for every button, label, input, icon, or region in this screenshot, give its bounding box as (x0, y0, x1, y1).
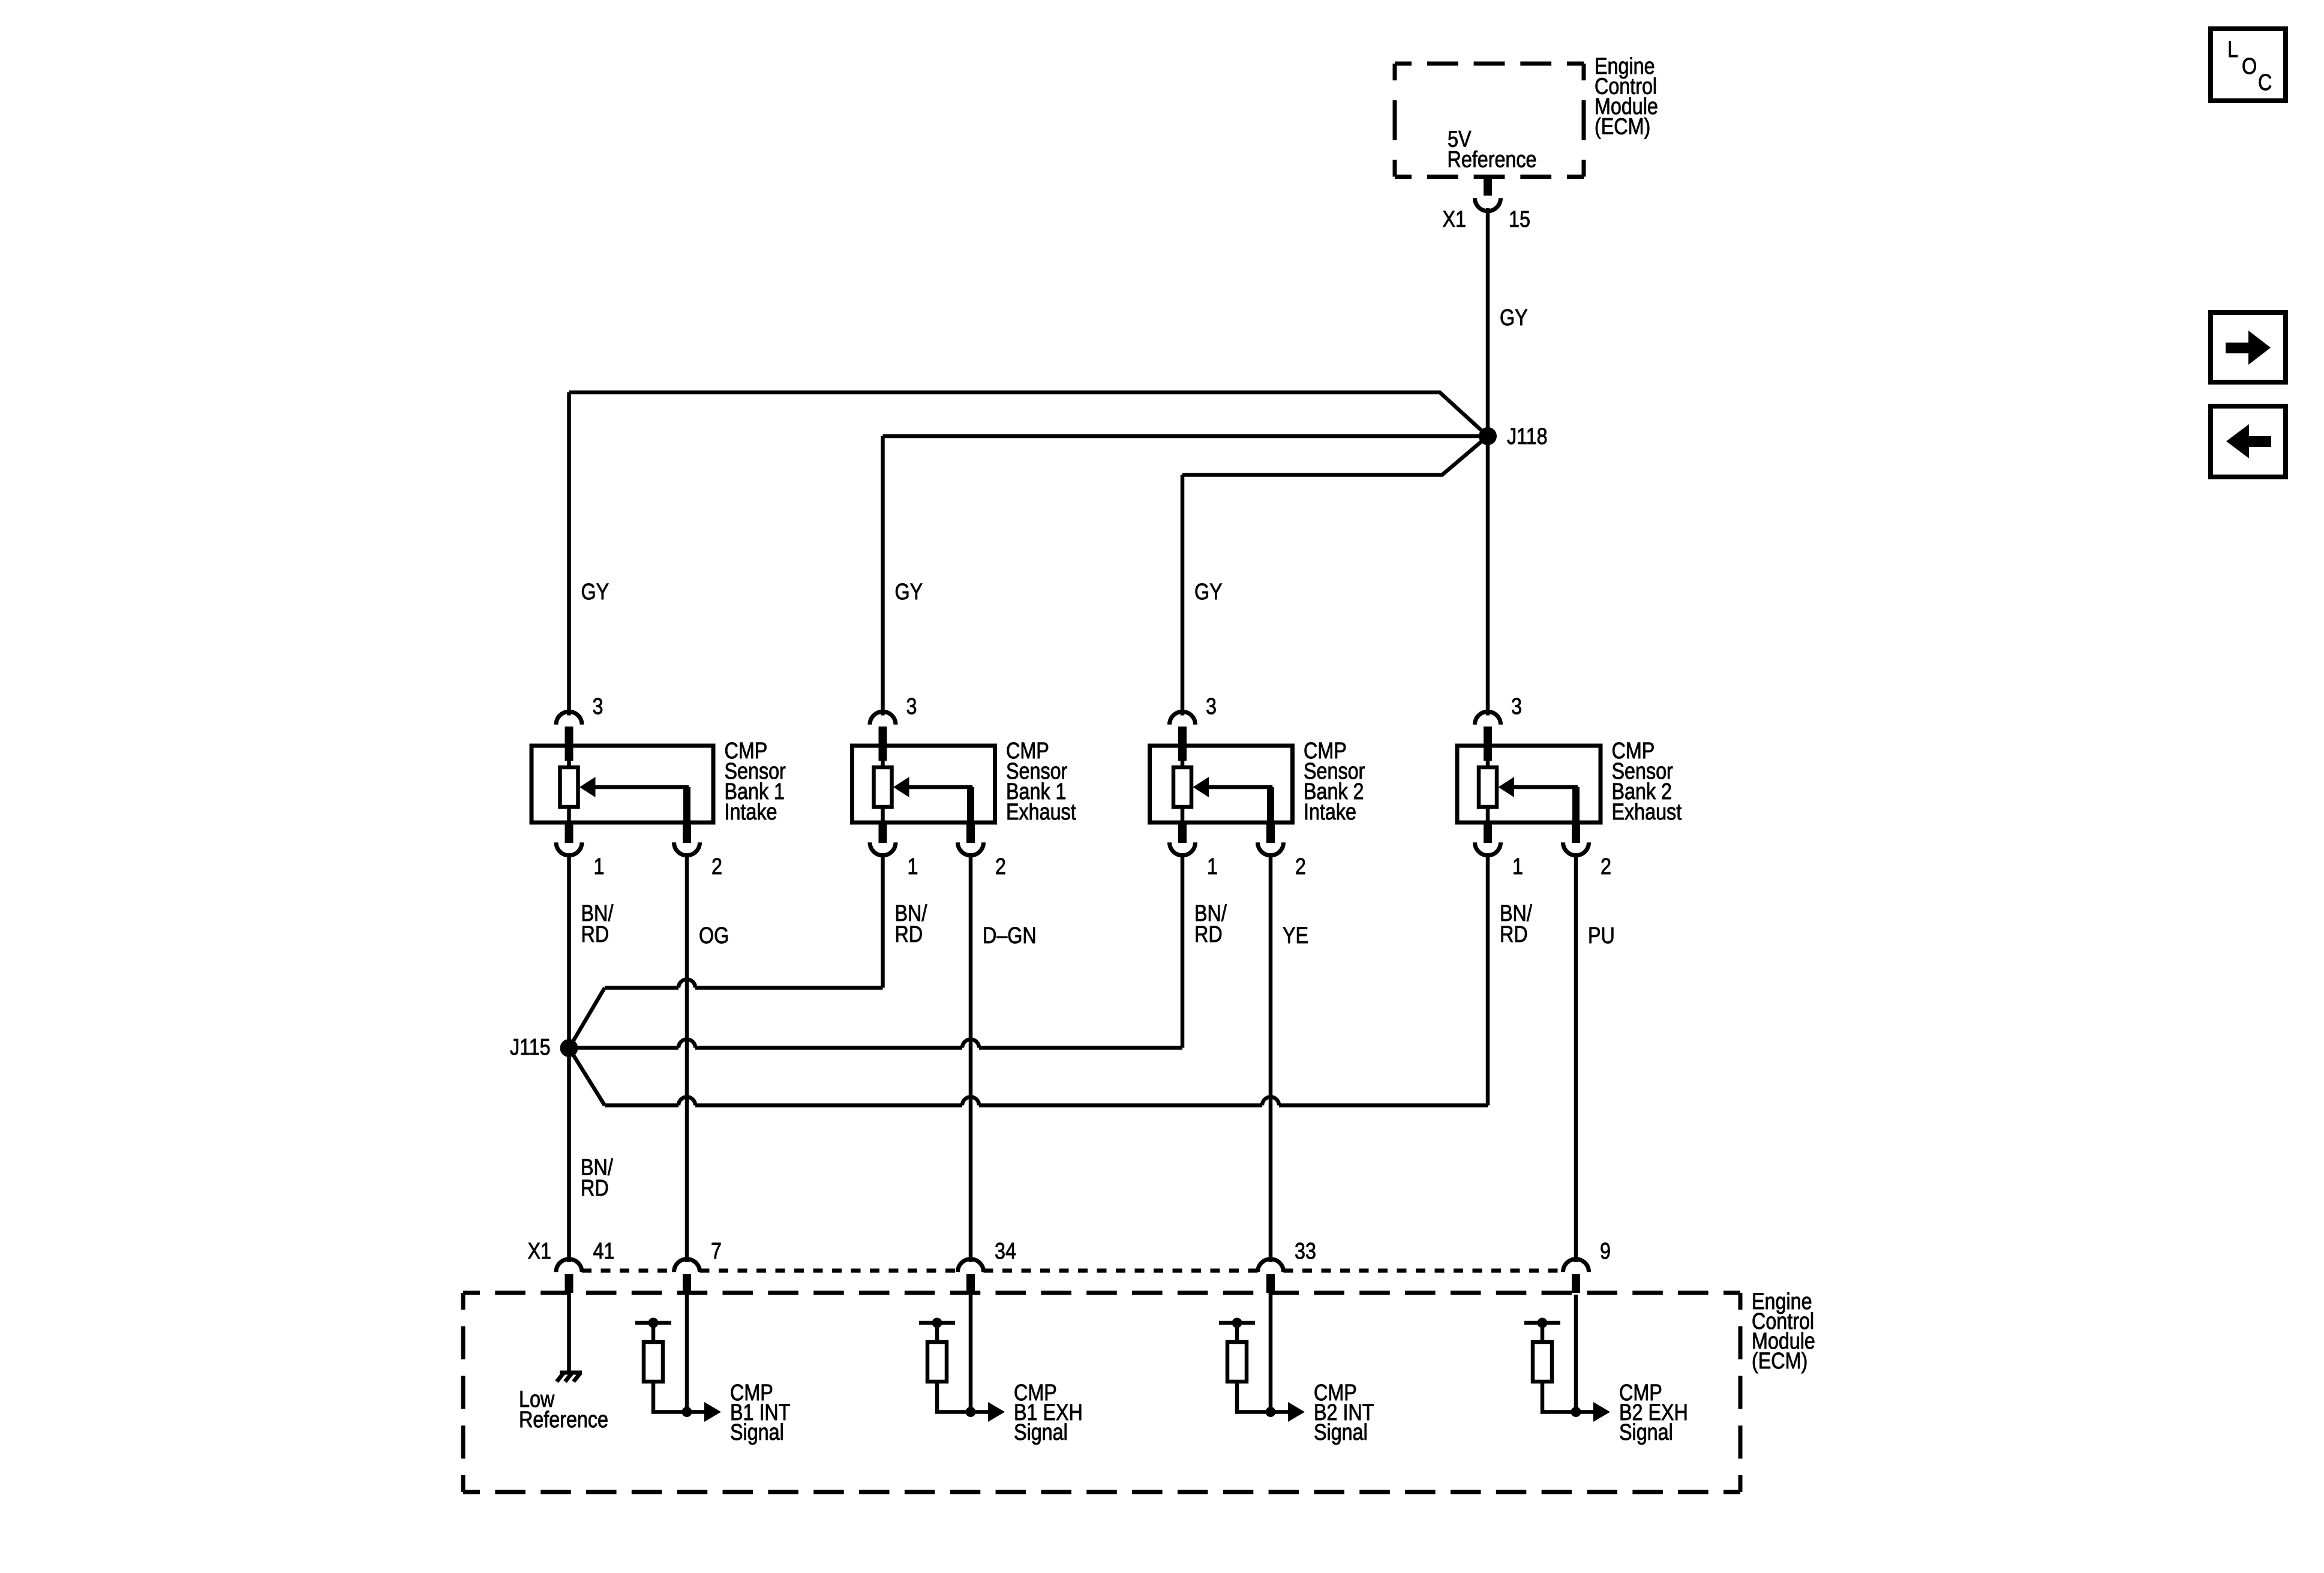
label Engine Control Module (ECM) top (1595, 54, 1658, 140)
wire B2 INT signal inside ECM (pin) (1269, 1295, 1273, 1412)
svg-text:RD: RD (1500, 922, 1528, 947)
wire BN/RD sensor B1 exhaust pin 1 down to J115 branch (881, 853, 885, 988)
wire resistor to B1 EXH signal node (937, 1382, 971, 1412)
signal arrow B2 INT (1271, 1402, 1305, 1422)
wire BN/RD from J115 down to ECM X1-41 (567, 1048, 571, 1262)
svg-text:2: 2 (995, 854, 1006, 879)
svg-text:O: O (2242, 54, 2257, 79)
pin 2 stub of CMP sensor Bank 2 Exhaust (1572, 822, 1580, 843)
svg-text:Reference: Reference (519, 1407, 608, 1433)
Engine Control Module (ECM) top box (dashed border top) (1395, 62, 1584, 66)
svg-text:3: 3 (1206, 694, 1217, 719)
junction splice J115 (560, 1039, 578, 1057)
pin 3 stub into CMP sensor Bank 2 Intake (1178, 727, 1187, 761)
pin 3 stub into CMP sensor Bank 1 Intake (565, 727, 574, 761)
pin 2 stub of CMP sensor Bank 1 Intake (683, 822, 691, 843)
junction dot B1 INT signal node (682, 1407, 692, 1417)
Engine Control Module (ECM) top box (dashed border bottom) (1395, 175, 1584, 179)
CMP sensor Bank 1 Exhaust box (852, 746, 995, 822)
sensing element (resistor) of CMP sensor Bank 2 Exhaust (1486, 758, 1490, 822)
Engine Control Module (ECM) bottom box (dashed border left) (461, 1293, 466, 1492)
svg-text:RD: RD (895, 922, 923, 947)
pin 41 stub into ECM (565, 1274, 574, 1293)
connector pin 1 of CMP sensor Bank 1 Exhaust (870, 842, 896, 855)
connector pin 2 of CMP sensor Bank 2 Exhaust (1563, 842, 1589, 855)
sensing element (resistor) of CMP sensor Bank 1 Exhaust (881, 758, 885, 822)
wire BN/RD branch J115 to sensor B2 intake (hops over OG and D-GN) (578, 1040, 1182, 1048)
label CMP sensor Bank 1 Intake (725, 739, 786, 825)
wire resistor to B2 INT signal node (1237, 1382, 1271, 1412)
connector pin 3 of CMP sensor Bank 1 Exhaust (870, 712, 896, 725)
pin 7 stub into ECM (683, 1274, 691, 1293)
ECM X1 connector face (dotted line) (582, 1269, 1563, 1273)
wire label BN/RD (sensor 1 pin 1) (581, 901, 614, 947)
svg-text:Reference: Reference (1448, 147, 1537, 172)
wire GY branch drop to sensor B1 intake pin 3 (567, 392, 571, 716)
svg-text:34: 34 (995, 1239, 1016, 1264)
svg-text:X1: X1 (528, 1239, 551, 1264)
wire BN/RD sensor B2 intake pin 1 down to J115 branch (1181, 853, 1185, 1048)
svg-text:33: 33 (1295, 1239, 1316, 1264)
Engine Control Module (ECM) bottom box (dashed border bottom) (463, 1490, 1740, 1494)
connector pin 1 of CMP sensor Bank 2 Exhaust (1475, 842, 1501, 855)
label CMP sensor Bank 2 Intake (1304, 739, 1365, 825)
pull-up rail for B2 EXH signal (1524, 1318, 1560, 1343)
svg-text:2: 2 (1601, 854, 1611, 879)
connector pin 1 of CMP sensor Bank 2 Intake (1169, 842, 1195, 855)
pull-up rail for B2 INT signal (1219, 1318, 1255, 1343)
internal arrow to element of CMP sensor Bank 1 Intake (580, 777, 690, 822)
signal arrow B1 INT (687, 1402, 721, 1422)
svg-text:YE: YE (1283, 923, 1308, 948)
pin 1 stub of CMP sensor Bank 1 Exhaust (879, 822, 887, 843)
pin 1 stub of CMP sensor Bank 1 Intake (565, 822, 574, 843)
label CMP B2 EXH Signal (1619, 1380, 1688, 1445)
svg-text:Exhaust: Exhaust (1006, 800, 1076, 825)
wire B1 EXH signal inside ECM (pin) (969, 1295, 973, 1412)
signal arrow B2 EXH (1576, 1402, 1610, 1422)
internal arrow to element of CMP sensor Bank 2 Intake (1193, 777, 1275, 822)
connector pin 3 of CMP sensor Bank 2 Exhaust (1475, 712, 1501, 725)
wire label BN/RD (low reference) (581, 1155, 613, 1201)
resistor (pull-up) for B2 INT signal (1227, 1342, 1247, 1382)
resistor (pull-up) for B1 INT signal (644, 1342, 663, 1382)
pin 34 stub into ECM (966, 1274, 975, 1293)
svg-text:2: 2 (1295, 854, 1306, 879)
svg-text:(ECM): (ECM) (1595, 114, 1650, 139)
junction dot B2 EXH signal node (1571, 1407, 1581, 1417)
pin 3 stub into CMP sensor Bank 2 Exhaust (1484, 727, 1492, 761)
pin 3 stub into CMP sensor Bank 1 Exhaust (879, 727, 887, 761)
wire BN/RD sensor B1 intake pin 1 down to splice J115 (567, 853, 571, 1048)
wire GY branch drop to sensor B1 exhaust pin 3 (881, 436, 885, 716)
pull-up rail for B1 EXH signal (919, 1318, 955, 1343)
connector pin 33 (ECM X1) (1258, 1259, 1284, 1272)
svg-text:3: 3 (906, 694, 917, 719)
wire resistor to B2 EXH signal node (1542, 1382, 1576, 1412)
pull-up rail for B1 INT signal (635, 1318, 671, 1343)
svg-text:Signal: Signal (730, 1420, 784, 1445)
svg-text:J118: J118 (1507, 424, 1548, 449)
wire label BN/RD (sensor 3 pin 1) (1194, 901, 1227, 947)
wire resistor to B1 INT signal node (653, 1382, 687, 1412)
LOC legend box (2211, 29, 2286, 101)
wire GY branch J118 to sensor B1 exhaust (883, 434, 1479, 439)
connector pin 3 of CMP sensor Bank 1 Intake (556, 712, 582, 725)
svg-text:Intake: Intake (725, 800, 777, 825)
CMP sensor Bank 2 Intake box (1150, 746, 1293, 822)
pin 1 stub of CMP sensor Bank 2 Exhaust (1484, 822, 1492, 843)
resistor (pull-up) for B1 EXH signal (927, 1342, 947, 1382)
connector pin 34 (ECM X1) (958, 1259, 984, 1272)
svg-text:1: 1 (594, 854, 605, 879)
CMP sensor Bank 2 Exhaust box (1457, 746, 1601, 822)
svg-text:GY: GY (1500, 305, 1528, 331)
Engine Control Module (ECM) top box (dashed border left) (1393, 64, 1397, 177)
pin 33 stub into ECM (1266, 1274, 1275, 1293)
svg-text:J115: J115 (510, 1035, 551, 1060)
Engine Control Module (ECM) bottom box (dashed border right) (1739, 1293, 1743, 1492)
sensing element (resistor) of CMP sensor Bank 1 Intake (567, 758, 571, 822)
svg-text:OG: OG (699, 923, 729, 948)
internal arrow to element of CMP sensor Bank 1 Exhaust (893, 777, 974, 822)
label CMP B2 INT Signal (1314, 1380, 1374, 1445)
svg-text:X1: X1 (1443, 207, 1466, 232)
wire B1 INT signal inside ECM (pin) (685, 1295, 689, 1412)
wire label BN/RD (sensor 4 pin 1) (1500, 901, 1532, 947)
connector pin 2 of CMP sensor Bank 1 Exhaust (958, 842, 984, 855)
svg-text:RD: RD (1194, 922, 1223, 947)
wire GY branch J118 to sensor B2 intake (horizontal+diagonal) (1182, 436, 1488, 475)
svg-text:Signal: Signal (1314, 1420, 1368, 1445)
label Low Reference (519, 1387, 608, 1433)
pin 1 stub of CMP sensor Bank 2 Intake (1178, 822, 1187, 843)
svg-text:7: 7 (711, 1239, 722, 1264)
connector X1-15 (female half-circle) (1475, 198, 1501, 211)
signal arrow B1 EXH (971, 1402, 1005, 1422)
svg-text:Intake: Intake (1304, 800, 1356, 825)
wire D-GN sensor pin 2 down to ECM (B1 EXH signal) (969, 853, 973, 1262)
svg-text:C: C (2258, 70, 2272, 95)
connector pin 9 (ECM X1) (1563, 1259, 1589, 1272)
connector pin 2 of CMP sensor Bank 2 Intake (1258, 842, 1284, 855)
wire BN/RD branch J115 to sensor B2 exhaust (diagonal+horizontal, hops over OG, D-GN, YE) (569, 1048, 605, 1106)
svg-text:3: 3 (593, 694, 603, 719)
wire PU sensor pin 2 down to ECM (B2 EXH signal) (1574, 853, 1578, 1262)
wire BN/RD sensor B2 exhaust pin 1 down to J115 branch (1486, 853, 1490, 1106)
wire OG sensor pin 2 down to ECM (B1 INT signal) (685, 853, 689, 1262)
wire low reference inside ECM (pin 41) (567, 1293, 571, 1371)
label CMP sensor Bank 1 Exhaust (1006, 739, 1076, 825)
resistor (pull-up) for B2 EXH signal (1533, 1342, 1552, 1382)
svg-text:(ECM): (ECM) (1752, 1349, 1807, 1374)
svg-text:2: 2 (711, 854, 722, 879)
connector pin 3 of CMP sensor Bank 2 Intake (1169, 712, 1195, 725)
label CMP B1 INT Signal (730, 1380, 790, 1445)
svg-text:1: 1 (1207, 854, 1218, 879)
chassis ground symbol (low reference) (557, 1373, 582, 1382)
wire BN/RD branch J115 to sensor B1 exhaust (diagonal+horizontal, hops over OG) (569, 988, 605, 1049)
junction dot B2 INT signal node (1266, 1407, 1276, 1417)
Engine Control Module (ECM) bottom box (dashed border top) (463, 1291, 1740, 1295)
svg-text:15: 15 (1509, 207, 1530, 232)
svg-text:GY: GY (1194, 580, 1223, 605)
pin stub X1-15 (male) (1484, 177, 1492, 196)
svg-text:PU: PU (1588, 923, 1615, 948)
svg-text:3: 3 (1511, 694, 1522, 719)
wire YE sensor pin 2 down to ECM (B2 INT signal) (1269, 853, 1273, 1262)
wire GY branch J118 to sensor B1 intake (horizontal+diagonal) (569, 392, 1488, 436)
wire B2 EXH signal inside ECM (pin) (1574, 1295, 1578, 1412)
sensing element (resistor) of CMP sensor Bank 2 Intake (1181, 758, 1185, 822)
forward navigation arrow button (2211, 313, 2286, 382)
svg-text:9: 9 (1600, 1239, 1611, 1264)
svg-text:L: L (2227, 37, 2238, 62)
svg-text:Exhaust: Exhaust (1612, 800, 1682, 825)
svg-text:RD: RD (581, 1176, 609, 1201)
pin 2 stub of CMP sensor Bank 1 Exhaust (966, 822, 975, 843)
back navigation arrow button (2211, 406, 2286, 477)
junction splice J118 (1479, 427, 1497, 445)
svg-text:Signal: Signal (1014, 1420, 1068, 1445)
label CMP B1 EXH Signal (1014, 1380, 1083, 1445)
svg-text:41: 41 (593, 1239, 615, 1264)
Engine Control Module (ECM) top box (dashed border right) (1582, 64, 1586, 177)
internal arrow to element of CMP sensor Bank 2 Exhaust (1499, 777, 1580, 822)
svg-text:RD: RD (581, 922, 609, 947)
svg-text:GY: GY (895, 580, 923, 605)
wire GY from ECM X1-15 down to CMP sensor B2 exhaust pin 3 (1486, 208, 1490, 716)
pin 9 stub into ECM (1572, 1274, 1580, 1293)
pin 2 stub of CMP sensor Bank 2 Intake (1266, 822, 1275, 843)
svg-text:1: 1 (908, 854, 918, 879)
CMP sensor Bank 1 Intake box (532, 746, 713, 822)
connector pin 1 of CMP sensor Bank 1 Intake (556, 842, 582, 855)
label 5V Reference (1448, 127, 1537, 172)
svg-text:GY: GY (581, 580, 609, 605)
wire GY branch drop to sensor B2 intake pin 3 (1181, 475, 1185, 716)
wire label BN/RD (sensor 2 pin 1) (895, 901, 927, 947)
label Engine Control Module (ECM) bottom (1752, 1289, 1815, 1374)
connector pin 41 (ECM X1) (556, 1259, 582, 1272)
svg-text:Signal: Signal (1619, 1420, 1673, 1445)
connector pin 7 (ECM X1) (674, 1259, 700, 1272)
connector pin 2 of CMP sensor Bank 1 Intake (674, 842, 700, 855)
svg-text:1: 1 (1512, 854, 1523, 879)
svg-text:D–GN: D–GN (983, 923, 1037, 948)
label CMP sensor Bank 2 Exhaust (1612, 739, 1682, 825)
junction dot B1 EXH signal node (966, 1407, 976, 1417)
